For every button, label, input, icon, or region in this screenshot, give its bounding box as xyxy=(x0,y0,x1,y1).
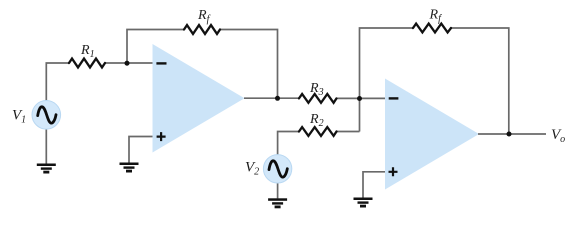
wire V1 top to R1 xyxy=(46,63,69,101)
svg-text:V1: V1 xyxy=(12,108,26,126)
node U2 output junction dot xyxy=(507,132,512,137)
node U1 output junction dot xyxy=(275,96,280,101)
svg-text:R3: R3 xyxy=(309,81,324,98)
op-amp U1 xyxy=(153,44,245,153)
source V1 xyxy=(32,101,61,130)
svg-text:Rf: Rf xyxy=(429,8,443,25)
svg-text:R1: R1 xyxy=(80,43,95,60)
wire node B to U2 inverting input xyxy=(360,97,386,99)
U2 plus pin xyxy=(389,167,398,176)
wire R1 to node A xyxy=(105,62,127,64)
resistor R3 xyxy=(299,94,337,103)
svg-text:V2: V2 xyxy=(245,160,259,178)
ground (V1) xyxy=(37,164,56,174)
resistor R2 xyxy=(299,127,337,136)
wire U2 feedback right vertical xyxy=(451,28,509,134)
wire node A to U1 inverting input xyxy=(127,62,153,64)
wire V2 bottom to ground xyxy=(277,183,279,199)
wire U1 feedback right vertical xyxy=(220,30,278,99)
U1 plus pin xyxy=(157,132,166,141)
svg-text:Vo: Vo xyxy=(551,127,565,145)
node B junction dot xyxy=(357,96,362,101)
wire U1 noninverting input to ground xyxy=(129,137,153,163)
source V2 xyxy=(263,155,291,183)
ground (V2) xyxy=(268,198,287,208)
svg-text:R2: R2 xyxy=(309,112,324,129)
op-amp U2 xyxy=(385,79,479,190)
wire vertical net x359 (R2 up through node B to Rf2) xyxy=(360,28,414,132)
node A junction dot xyxy=(125,61,130,66)
wire U2 noninverting input to ground xyxy=(363,172,385,198)
wire V2 top to R2 xyxy=(278,132,299,155)
U2 minus pin xyxy=(389,97,399,99)
resistor R1 xyxy=(69,59,105,68)
wire V1 bottom to ground xyxy=(45,129,47,164)
wire U1 feedback left vertical xyxy=(127,30,184,64)
resistor Rf (U2 feedback) xyxy=(413,24,451,33)
wire R3 to node B xyxy=(337,97,360,99)
ground (U2 plus) xyxy=(354,198,373,208)
wire U2 output to Vo xyxy=(478,133,546,135)
resistor Rf (U1 feedback) xyxy=(184,25,220,34)
svg-text:Rf: Rf xyxy=(197,8,211,25)
ground (U1 plus) xyxy=(120,163,139,173)
wire U1 output to R3 xyxy=(244,97,299,99)
U1 minus pin xyxy=(156,62,166,64)
wire R2 to vertical net xyxy=(337,131,360,133)
